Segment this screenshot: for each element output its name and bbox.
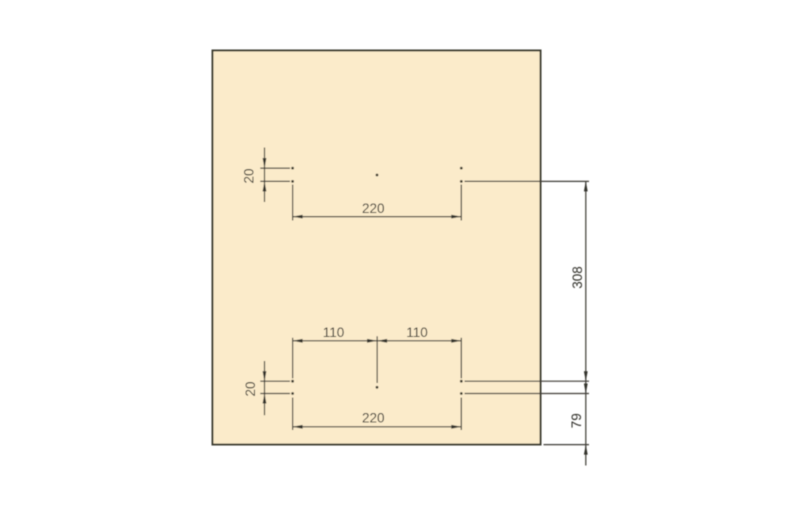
label 20 (bottom) <box>243 381 258 396</box>
hole bottom-center <box>376 386 379 389</box>
arrow down to top-20 upper line <box>263 158 267 168</box>
arrow up to top-20 lower line <box>263 181 267 191</box>
dimension 20 (top group) <box>260 148 290 203</box>
svg-text:220: 220 <box>362 201 385 216</box>
svg-text:308: 308 <box>570 266 585 289</box>
hole bottom-right upper <box>460 380 463 383</box>
arrow right end of bottom 220 <box>451 425 461 429</box>
dimension 20 (bottom group) <box>260 361 290 415</box>
arrow left end of bottom 220 <box>293 425 303 429</box>
svg-text:110: 110 <box>323 325 345 340</box>
arrow right toward center (110 left) <box>367 339 377 343</box>
label 20 (top) <box>242 168 257 183</box>
dimension 110 left (bottom group) <box>293 336 462 383</box>
hole top-left upper <box>291 167 294 170</box>
svg-text:110: 110 <box>406 325 428 340</box>
dimension 220 (bottom group) <box>293 398 462 430</box>
arrow down to bottom-20 upper line <box>263 371 267 381</box>
panel <box>213 51 541 445</box>
hole bottom-left lower <box>291 392 294 395</box>
label 308 <box>570 266 585 289</box>
extension line panel bottom edge to right dim <box>544 444 590 446</box>
arrow left end of 110 <box>293 339 303 343</box>
hole top-center <box>376 174 379 177</box>
hole top-left lower <box>291 180 294 183</box>
extension line from top-right hole to right dim <box>465 180 590 182</box>
right vertical dimension line <box>585 181 587 465</box>
arrow down above 79 start <box>584 384 588 394</box>
hole bottom-right lower <box>460 392 463 395</box>
hole bottom-left upper <box>291 380 294 383</box>
dimension 220 (top group) <box>293 185 462 221</box>
extension line bottom-right upper hole to right dim <box>465 380 590 382</box>
arrow right end of top 220 <box>451 215 461 219</box>
arrow left toward center (110 right) <box>377 339 387 343</box>
svg-text:220: 220 <box>362 411 385 426</box>
svg-text:20: 20 <box>242 168 257 183</box>
arrow up below 79 end <box>584 445 588 455</box>
arrow down at bottom of 308 <box>584 371 588 381</box>
arrow right end of 110 <box>451 339 461 343</box>
hole top-right upper <box>460 167 463 170</box>
svg-text:20: 20 <box>243 381 258 396</box>
arrow up to bottom-20 lower line <box>263 394 267 404</box>
hole top-right lower <box>460 180 463 183</box>
arrow up at top of 308 <box>584 181 588 191</box>
label 79 <box>569 413 584 428</box>
arrow left end of top 220 <box>293 215 303 219</box>
extension line bottom-right lower hole to right dim <box>465 393 590 395</box>
svg-text:79: 79 <box>569 413 584 428</box>
